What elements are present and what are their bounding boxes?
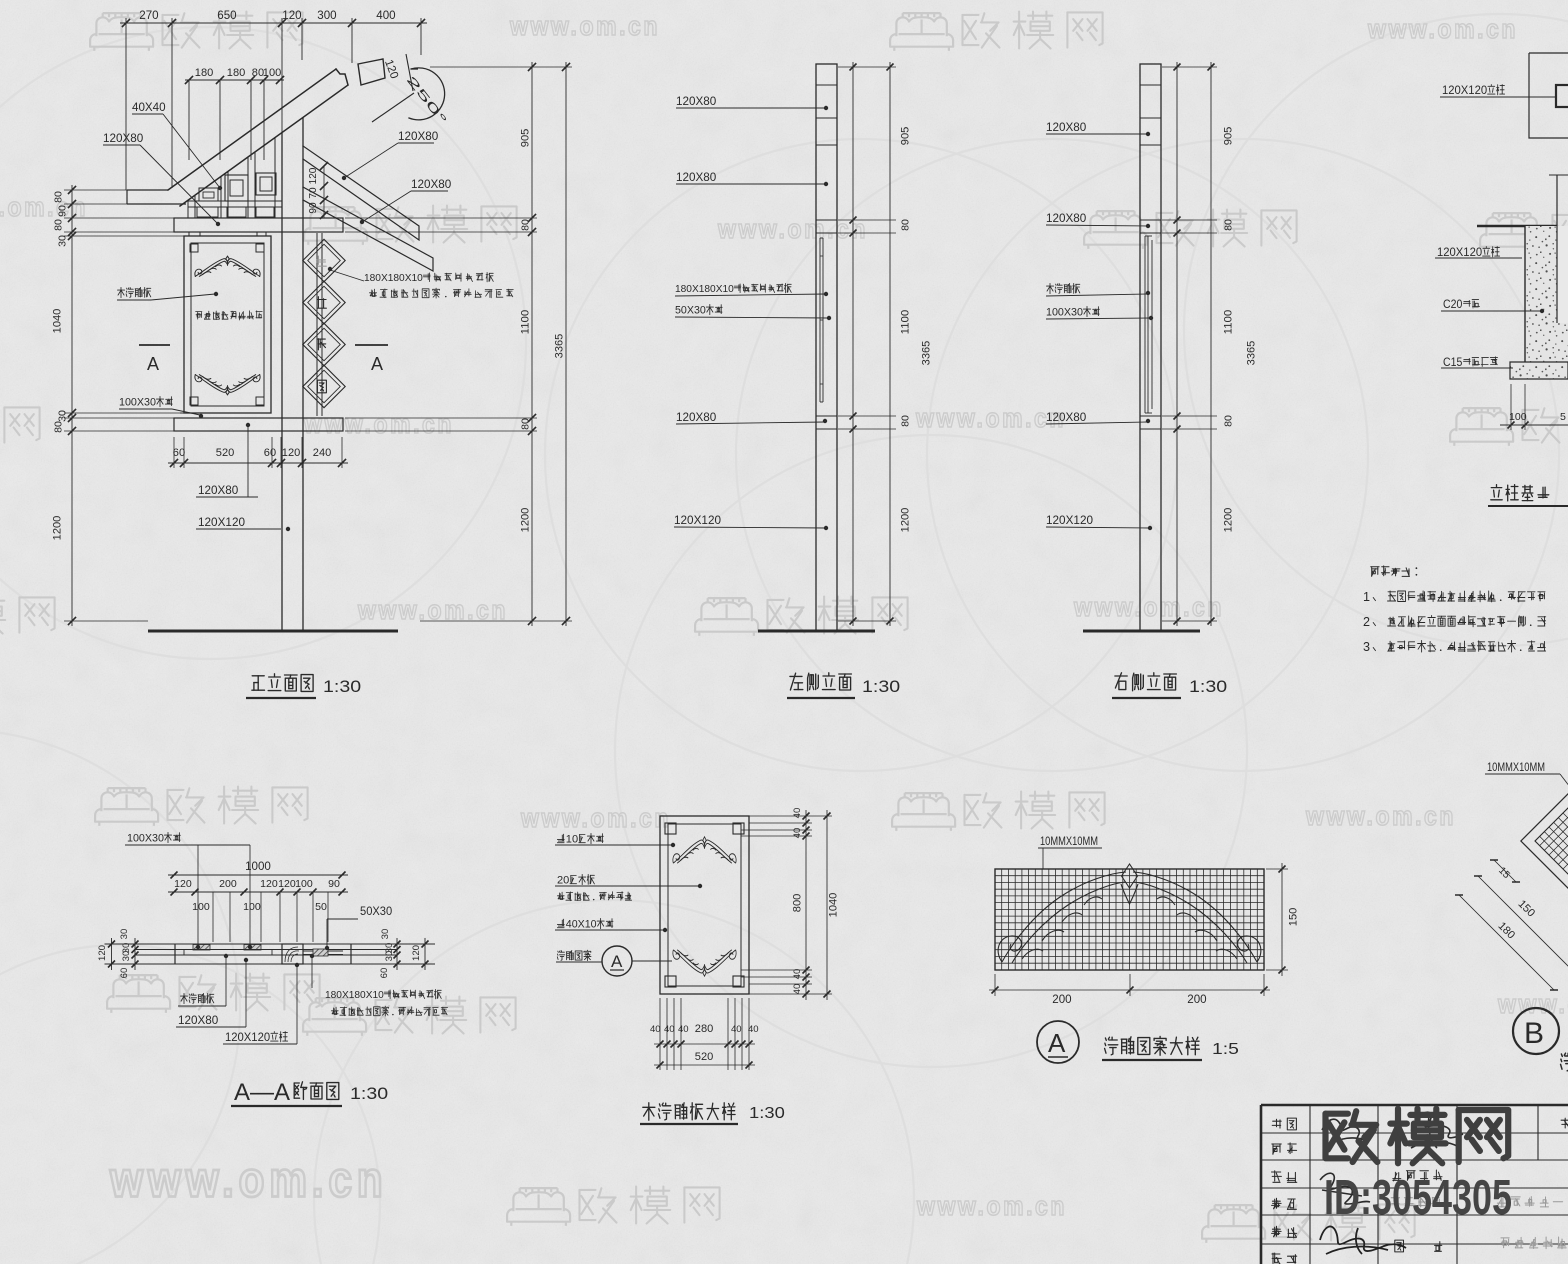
svg-text:2: 2 [1363, 615, 1370, 629]
svg-text:100X30: 100X30 [119, 397, 156, 409]
svg-text:30: 30 [56, 235, 68, 247]
svg-text:150: 150 [1288, 908, 1300, 927]
front elevation main roof beam 120 wide [168, 69, 348, 206]
left elevation post 120X120 [816, 64, 837, 631]
svg-text:30: 30 [56, 410, 68, 422]
A-A section horizontal members [105, 943, 436, 945]
acrylic diamond plaques 180X180 [303, 239, 345, 281]
svg-text:1200: 1200 [52, 516, 64, 541]
svg-text:520: 520 [216, 447, 235, 459]
title block inner lines [1262, 1132, 1568, 1134]
right elevation post 120X120 [1140, 64, 1161, 631]
svg-text:3365: 3365 [921, 341, 933, 366]
extension lines down to section [212, 892, 214, 942]
250 degree arc [409, 68, 445, 120]
roof beam broken end piece [358, 59, 385, 85]
svg-text:180: 180 [227, 67, 246, 79]
svg-text:120X80: 120X80 [198, 483, 239, 497]
svg-text:1100: 1100 [520, 310, 532, 335]
svg-text:120: 120 [308, 167, 319, 184]
svg-text:A: A [611, 952, 623, 971]
svg-text:www.om.cn: www.om.cn [916, 1191, 1067, 1221]
thin batten row under cap [188, 232, 190, 236]
svg-text:60: 60 [379, 968, 390, 979]
svg-text:100: 100 [1509, 411, 1527, 423]
battens 100X30 on face (hatched) [193, 945, 210, 951]
svg-text:100: 100 [295, 878, 313, 890]
svg-text:70: 70 [308, 187, 319, 199]
dim 1000 [168, 874, 348, 876]
svg-text:20: 20 [557, 875, 569, 887]
svg-text:120: 120 [411, 945, 422, 961]
svg-text:100X30: 100X30 [1046, 307, 1083, 319]
svg-text:300: 300 [317, 10, 336, 22]
front elevation lattice dimension line 180/180/80/100 [185, 79, 284, 81]
project name 河两岸 (faint) [1497, 1202, 1506, 1204]
svg-text:1:5: 1:5 [1212, 1041, 1239, 1058]
svg-text:90: 90 [308, 202, 319, 214]
svg-text:120X80: 120X80 [1046, 410, 1087, 424]
design notes 设计说明 [1371, 566, 1379, 568]
svg-text:180X180X10: 180X180X10 [675, 283, 734, 295]
svg-text:1:30: 1:30 [1189, 677, 1227, 696]
carved panel strip on post face [1144, 236, 1146, 413]
svg-text:1000: 1000 [245, 861, 271, 873]
sign panel text 景点文字简介位置 [196, 311, 202, 313]
sign panel corner squares [190, 244, 198, 252]
svg-text:40: 40 [731, 1024, 742, 1035]
title 左侧立面 1:30 [790, 675, 802, 677]
svg-text:A: A [147, 354, 159, 374]
svg-text:30: 30 [380, 929, 391, 940]
bottom rail 120X80 [174, 418, 343, 431]
diamond batten 50X30 [316, 233, 318, 416]
svg-text:120: 120 [278, 878, 296, 890]
top cap rail 120X80 [174, 218, 343, 232]
svg-text:80: 80 [899, 219, 911, 231]
svg-text:120X80: 120X80 [411, 177, 452, 191]
svg-text:40X10: 40X10 [566, 919, 597, 931]
front ground line [148, 630, 398, 633]
label 木浮雕板 with leader [120, 287, 122, 297]
post section 120X120 with wood grain [282, 944, 303, 964]
svg-text:180X180X10: 180X180X10 [364, 272, 423, 284]
watermark arcs [0, 27, 526, 659]
svg-text:800: 800 [792, 894, 804, 913]
svg-text:80: 80 [52, 191, 64, 203]
svg-text:40: 40 [650, 1024, 661, 1035]
signature row1 [1322, 1119, 1372, 1144]
left elevation dim chains [852, 62, 854, 626]
svg-text:200: 200 [219, 878, 237, 890]
svg-text:30: 30 [121, 951, 132, 962]
panel detail bottom dims [659, 998, 661, 1070]
front elevation top dimension line 270/650/120/300/400 [120, 22, 427, 24]
panel detail top flourish [673, 837, 736, 863]
svg-text:80: 80 [519, 219, 531, 231]
section mark A-A left [139, 344, 170, 346]
svg-text:80: 80 [1222, 415, 1234, 427]
svg-text:3365: 3365 [554, 334, 566, 359]
svg-text:1200: 1200 [520, 508, 532, 533]
svg-text:1:30: 1:30 [323, 677, 361, 696]
svg-text:80: 80 [52, 421, 64, 433]
svg-text:100: 100 [192, 901, 210, 913]
svg-text:120X120: 120X120 [674, 513, 721, 527]
title block outer border [1261, 1104, 1568, 1107]
svg-text:50: 50 [315, 901, 327, 913]
svg-text:270: 270 [139, 10, 158, 22]
cell label 建设单位 [1393, 1178, 1401, 1180]
svg-text:ID:3054305: ID:3054305 [1324, 1171, 1512, 1225]
svg-text:3365: 3365 [1246, 341, 1258, 366]
svg-text:120: 120 [260, 878, 278, 890]
bedding slab C15 [1510, 362, 1568, 379]
cell label 工程项目 (faint) [1391, 1197, 1399, 1199]
sign panel outer frame [184, 236, 271, 413]
watermark www.om.cn [509, 11, 660, 41]
signature row3 (审定) big [1320, 1226, 1406, 1254]
svg-text:www.om.cn: www.om.cn [303, 409, 454, 439]
svg-text:www.om.cn: www.om.cn [509, 11, 660, 41]
svg-text:120: 120 [282, 447, 301, 459]
front elevation right dim chains 905/80/1100/80/1200 and 3365 [531, 62, 533, 626]
cap rail section [1140, 219, 1161, 221]
svg-text:40: 40 [792, 808, 803, 819]
svg-text:120X120: 120X120 [198, 515, 245, 529]
svg-text:200: 200 [1187, 994, 1206, 1006]
svg-text:C20: C20 [1443, 299, 1462, 311]
svg-text:100: 100 [243, 901, 261, 913]
svg-text:A—A: A—A [234, 1079, 290, 1106]
detail B dim lines [1459, 895, 1554, 990]
signature row2 (校对/审核) [1320, 1173, 1370, 1204]
svg-text:60: 60 [264, 447, 276, 459]
title 右侧立面 1:30 [1115, 675, 1127, 677]
svg-text:120X120: 120X120 [1046, 513, 1093, 527]
sheet name 景点标志牌 (faint) [1501, 1237, 1509, 1239]
svg-text:120X80: 120X80 [676, 170, 717, 184]
detail B rotated grid square [1521, 757, 1568, 925]
svg-text:180X180X10: 180X180X10 [325, 989, 384, 1001]
svg-text:80: 80 [1222, 219, 1234, 231]
svg-text:A: A [1048, 1028, 1066, 1058]
cell label 图 名 [1395, 1240, 1404, 1252]
svg-text:1200: 1200 [900, 508, 912, 533]
svg-text:120X120: 120X120 [1442, 85, 1487, 97]
svg-text:1100: 1100 [1223, 310, 1235, 335]
panel detail outer frame [660, 816, 749, 994]
svg-text:1:30: 1:30 [749, 1105, 785, 1122]
svg-text:120X80: 120X80 [676, 94, 717, 108]
section mark A-A right [355, 344, 388, 346]
label 钉10厚木条 [557, 839, 564, 841]
svg-text:www.om.cn: www.om.cn [109, 1152, 387, 1208]
svg-text:80: 80 [519, 418, 531, 430]
svg-text:120: 120 [282, 10, 301, 22]
acrylic strip on post face [819, 238, 821, 402]
lattice ring squares [225, 175, 248, 201]
rotated dim 120 on beam end [382, 58, 400, 80]
svg-text:1040: 1040 [828, 893, 840, 918]
svg-text:280: 280 [695, 1023, 714, 1035]
label 钉40X10木条 [557, 924, 564, 926]
dim chain 120/200/120/120/100/90 [168, 891, 348, 893]
watermark partial logos [0, 407, 40, 446]
svg-text:905: 905 [1223, 127, 1235, 146]
panel detail inner frame [668, 824, 741, 986]
panel detail corner squares [665, 823, 676, 834]
svg-text:520: 520 [695, 1051, 714, 1063]
svg-text:40: 40 [748, 1024, 759, 1035]
svg-text:1040: 1040 [52, 309, 64, 334]
title 立柱基础详图 (cut) [1496, 485, 1498, 487]
front elevation bottom dim chain 60/520/60/120/240 [168, 462, 348, 464]
overlay logo 欧模网 [1326, 1111, 1348, 1117]
svg-text:40: 40 [664, 1024, 675, 1035]
relief detail right dim 150 [1281, 863, 1283, 976]
svg-text:120X80: 120X80 [1046, 120, 1087, 134]
post square in plan [1556, 85, 1568, 107]
signature row0 extra [1411, 1112, 1463, 1148]
right elevation ground line [1083, 630, 1200, 633]
svg-text:10MMX10MM: 10MMX10MM [1040, 836, 1098, 848]
svg-text:180: 180 [195, 67, 214, 79]
svg-text:120X120: 120X120 [1437, 247, 1482, 259]
svg-text:240: 240 [313, 447, 332, 459]
circle A mark [1037, 1021, 1079, 1063]
front elevation top extension lines [125, 18, 127, 190]
svg-text:50X30: 50X30 [675, 305, 706, 317]
svg-text:60: 60 [173, 447, 185, 459]
mini dims 90/70/120 near post top [323, 166, 325, 218]
svg-text:1200: 1200 [1223, 508, 1235, 533]
svg-text:120X80: 120X80 [676, 410, 717, 424]
svg-text:B: B [1524, 1017, 1544, 1050]
svg-text:10MMX10MM: 10MMX10MM [1487, 762, 1545, 774]
bottom batten under panel [180, 412, 271, 414]
svg-text:80: 80 [899, 415, 911, 427]
svg-text:3: 3 [1363, 640, 1370, 654]
cap rail section [816, 219, 837, 221]
svg-text:120X80: 120X80 [103, 131, 144, 145]
svg-text:www.om.cn: www.om.cn [1073, 592, 1224, 622]
svg-text:40X40: 40X40 [132, 100, 166, 114]
relief detail bottom dims 200 200 [989, 989, 1270, 991]
svg-text:120: 120 [174, 878, 192, 890]
title 木浮雕板大样 1:30 [648, 1103, 650, 1120]
lattice window mullions [187, 200, 189, 218]
svg-text:100X30: 100X30 [127, 833, 164, 845]
sign panel top flourish [195, 256, 260, 276]
svg-text:120X80: 120X80 [398, 129, 439, 143]
circle B mark [1513, 1008, 1559, 1054]
right slope beam upper 120X80 [303, 146, 419, 240]
watermark logos 欧模网 [90, 12, 303, 51]
right slope beam lower 120X80 [303, 187, 433, 271]
svg-text:30: 30 [119, 929, 130, 940]
svg-text:40: 40 [792, 969, 803, 980]
svg-text:A: A [371, 354, 383, 374]
bottom rail section [816, 415, 837, 417]
svg-text:905: 905 [900, 127, 912, 146]
svg-text:400: 400 [376, 10, 395, 22]
footing plan rectangle [1529, 53, 1568, 138]
svg-text:www.om.cn: www.om.cn [915, 403, 1066, 433]
left eave rail 120X80 [127, 189, 168, 191]
carved panel layer [184, 949, 272, 951]
svg-text:www.om.cn: www.om.cn [1497, 989, 1568, 1019]
svg-text:650: 650 [217, 10, 236, 22]
svg-text:905: 905 [520, 129, 532, 148]
post top notch lines [1140, 84, 1161, 86]
title 浮雕图案大样 1:5 [1104, 1038, 1107, 1040]
svg-text:5: 5 [1560, 411, 1566, 423]
svg-text:www.om.cn: www.om.cn [0, 192, 88, 222]
svg-text:www.om.cn: www.om.cn [1305, 801, 1456, 831]
front elevation left dim chain [71, 185, 73, 626]
svg-text:www.om.cn: www.om.cn [717, 214, 868, 244]
svg-text:60: 60 [119, 968, 130, 979]
svg-text:90: 90 [328, 878, 340, 890]
right elevation dim chains [1176, 62, 1178, 626]
row labels 绘图/设计/校对/审核/审定/批准 [1273, 1120, 1282, 1122]
right mini dims [396, 938, 398, 970]
svg-text:40: 40 [792, 984, 803, 995]
svg-text:80: 80 [52, 219, 64, 231]
post (front) 120X120 [281, 133, 283, 631]
concrete footing C20 [1525, 226, 1568, 362]
svg-text:www.om.cn: www.om.cn [520, 803, 671, 833]
left mini dims [111, 938, 113, 970]
panel detail bottom flourish [673, 950, 736, 976]
sign panel bottom flourish [195, 375, 260, 395]
relief detail grid [995, 869, 1264, 970]
left elevation ground line [758, 630, 875, 633]
svg-text:50X30: 50X30 [360, 906, 392, 918]
svg-text:C15: C15 [1443, 357, 1462, 369]
embedded post [1556, 175, 1558, 323]
svg-text:40: 40 [678, 1024, 689, 1035]
svg-text:120X80: 120X80 [1046, 211, 1087, 225]
svg-text:100: 100 [263, 67, 282, 79]
svg-text:10: 10 [566, 834, 578, 846]
svg-text:30: 30 [384, 951, 395, 962]
bottom rail section [1140, 415, 1161, 417]
svg-text:www.om.cn: www.om.cn [357, 595, 508, 625]
svg-text:120X80: 120X80 [178, 1013, 219, 1027]
label 浮雕图案 with circle A [557, 951, 560, 952]
label 木浮雕板 below [183, 993, 185, 1003]
panel detail right dims [749, 815, 832, 817]
svg-text:120X120: 120X120 [225, 1032, 270, 1044]
ground line at footing [1477, 225, 1557, 228]
partial title for B [1560, 1054, 1563, 1056]
svg-text:90: 90 [56, 205, 68, 217]
svg-text:1:30: 1:30 [862, 677, 900, 696]
title 正立面图 1:30 [252, 675, 264, 677]
acrylic strip section [303, 950, 343, 952]
top right partial char [1561, 1119, 1568, 1121]
svg-text:200: 200 [1052, 994, 1071, 1006]
footing bottom dims [1510, 384, 1512, 430]
svg-text:1: 1 [1363, 590, 1370, 604]
svg-text:1100: 1100 [900, 310, 912, 335]
post top notch lines [816, 84, 837, 86]
sign panel inner frame [191, 243, 264, 406]
svg-text:120: 120 [97, 945, 108, 961]
svg-text:1:30: 1:30 [350, 1084, 388, 1103]
svg-text:40: 40 [792, 828, 803, 839]
svg-text:www.om.cn: www.om.cn [1367, 14, 1518, 44]
relief detail ornament [998, 864, 1261, 963]
